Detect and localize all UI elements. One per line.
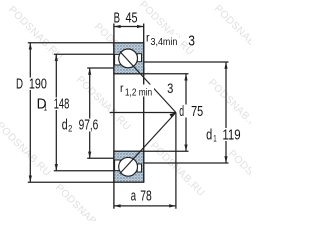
d2 bottom arrow [88,152,91,159]
arrowheads [29,25,228,208]
svg-text:119: 119 [222,127,240,143]
svg-text:148: 148 [54,97,70,113]
svg-text:78: 78 [140,189,152,205]
dimension D1: dimension line [55,54,57,171]
d2 top arrow [88,68,91,75]
dimension a: dimension line [114,205,176,207]
B right arrow [137,25,144,28]
svg-text:d: d [62,117,68,133]
dimension D: extension line bottom [28,181,114,183]
svg-text:r: r [120,83,124,95]
right face silhouette line [143,24,145,183]
svg-text:97,6: 97,6 [79,117,99,133]
top cross-section: left cage notch [115,54,121,65]
dimension D1: extension line bottom [54,170,114,172]
label d1 119 [205,127,243,144]
dimension d2: extension line bottom [87,157,114,159]
svg-text:3,4min: 3,4min [151,37,178,48]
dimension D: dimension line [29,43,31,182]
label d 75 [178,104,206,120]
svg-text:d: d [206,127,212,143]
svg-text:3: 3 [188,33,195,49]
centerline axis [110,112,176,114]
dimension a: right extension line [175,113,177,209]
label a 78 [129,189,154,205]
d top arrow [184,74,187,81]
contact angle line through bottom ball [120,113,176,174]
svg-text:3: 3 [167,81,173,96]
D1 bottom arrow [55,164,58,171]
dimension d1: extension line top [144,61,229,63]
D bottom arrow [29,176,32,183]
dimension d2: dimension line [89,68,91,158]
D top arrow [29,43,32,50]
a right arrow [169,204,176,207]
bottom cross-section: right cage notch [137,164,141,172]
label D1 148 [35,97,71,114]
d1 top arrow [224,62,227,69]
label r 3,4min 3 [145,32,195,49]
svg-text:45: 45 [126,10,138,26]
svg-text:75: 75 [191,104,203,120]
dimension D: extension line top [28,42,114,44]
label D 190 [15,76,49,92]
contact line arrowhead at pressure centre [170,113,176,118]
svg-text:B: B [114,10,120,26]
d1 bottom arrow [224,156,227,163]
svg-text:190: 190 [29,76,47,92]
svg-text:d: d [179,104,184,120]
label d2 97,6 [61,117,101,134]
bottom cross-section: left cage notch [115,160,121,171]
label r 1,2 min 3 [119,81,174,98]
svg-text:1: 1 [213,133,216,144]
dimension d: extension line bottom [144,150,189,152]
dimension B: dimension line [114,26,144,28]
D1 top arrow [55,54,58,61]
dimension d1: dimension line [225,62,227,163]
dimension d1: extension line bottom [144,162,229,164]
top cross-section: rings [114,43,144,74]
dimension D1: extension line top [54,53,114,55]
dimension d: extension line top [144,73,189,75]
bottom cross-section: rings [114,151,144,182]
dimension d2: extension line top [87,67,114,69]
svg-text:1: 1 [44,103,47,114]
a left arrow [114,204,121,207]
dimension d: dimension line [185,74,187,151]
top cross-section: right cage notch [137,54,141,62]
svg-text:r: r [146,32,150,44]
ball of bottom cross-section [119,157,138,176]
B left arrow [114,25,121,28]
svg-text:1,2 min: 1,2 min [125,88,152,99]
svg-text:a: a [131,189,136,205]
svg-text:D: D [16,76,23,92]
d bottom arrow [184,145,187,152]
svg-text:2: 2 [68,124,72,135]
left face silhouette line [113,24,115,209]
contact angle line through top ball [120,51,176,112]
ball of top cross-section [119,49,138,68]
